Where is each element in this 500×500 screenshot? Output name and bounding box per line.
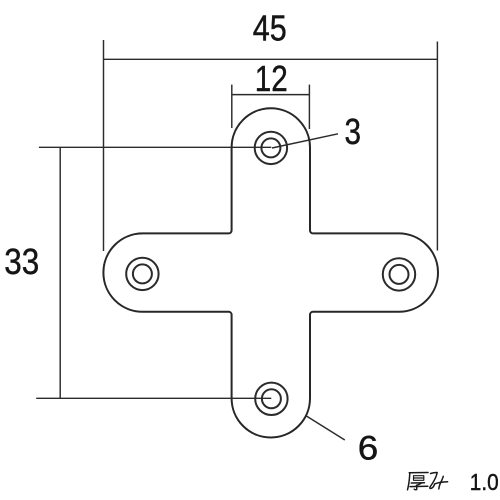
part outline: cross-shaped plate bbox=[103, 108, 438, 437]
hole left inner bbox=[133, 264, 152, 283]
dimension 45 left extension bbox=[103, 40, 105, 251]
dimension 12 line bbox=[232, 94, 310, 96]
dimension 45 line bbox=[104, 58, 438, 60]
kanji 厚 top bar bbox=[409, 472, 428, 474]
svg-text:6: 6 bbox=[358, 430, 379, 468]
kanji 厚 child top bar bbox=[411, 482, 424, 484]
dimension 33 top extension / centerline bbox=[39, 146, 271, 148]
leader line for corner radius 6 bbox=[306, 416, 345, 440]
kanji 厚 left leg bbox=[408, 473, 410, 490]
kanji 厚 child diagonal bbox=[417, 483, 422, 485]
kanji 厚 wide bar bbox=[410, 485, 428, 487]
dimension 45 right extension bbox=[436, 42, 438, 251]
svg-text:12: 12 bbox=[255, 58, 288, 99]
hole top inner bbox=[261, 138, 280, 157]
hole right outer bbox=[383, 258, 415, 290]
note: thickness label 厚み (kanji drawn as paths) bbox=[408, 472, 448, 489]
kanji 厚 child vertical hook bbox=[414, 485, 417, 489]
hole top outer bbox=[255, 132, 287, 164]
kanji 厚 sun box mid bar bbox=[414, 477, 424, 479]
hole left outer bbox=[126, 258, 158, 290]
hole bottom inner bbox=[262, 389, 281, 408]
hiragana mi stroke2 bbox=[439, 476, 444, 489]
hiragana mi stroke1 bbox=[430, 472, 448, 488]
svg-text:33: 33 bbox=[4, 241, 39, 282]
hole bottom outer bbox=[255, 383, 287, 415]
dimension 33 bottom extension / centerline bbox=[36, 397, 271, 399]
dimension 33 line bbox=[59, 147, 61, 398]
kanji 厚 sun box bbox=[414, 476, 424, 481]
svg-text:45: 45 bbox=[253, 7, 287, 48]
dimension 12 right extension bbox=[308, 85, 310, 129]
leader line for hole diameter 3 bbox=[272, 134, 338, 148]
hole right inner bbox=[390, 265, 409, 284]
svg-text:1.0: 1.0 bbox=[470, 469, 499, 495]
dimension 12 left extension bbox=[231, 85, 233, 128]
svg-text:3: 3 bbox=[345, 111, 362, 152]
